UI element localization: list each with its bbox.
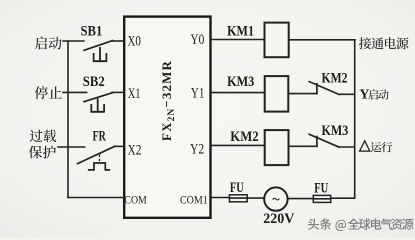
wire FU2 to bus xyxy=(331,197,355,199)
svg-text:X1: X1 xyxy=(128,86,141,102)
coil KM2 xyxy=(265,130,289,165)
svg-text:FU: FU xyxy=(314,181,328,197)
svg-text:Y0: Y0 xyxy=(190,32,204,48)
svg-text:COM: COM xyxy=(124,193,147,207)
watermark @全球电气资源 xyxy=(335,218,413,231)
pushbutton SB1 blade xyxy=(84,41,113,51)
svg-text:SB2: SB2 xyxy=(83,74,105,90)
fuse FU2 xyxy=(313,195,330,202)
wire source to FU2 xyxy=(288,198,314,200)
AC source circle xyxy=(264,187,287,210)
right bus wire xyxy=(354,40,356,198)
wire FR to X2 xyxy=(115,145,124,147)
FR contact blade xyxy=(78,146,115,163)
wire start row xyxy=(63,40,84,42)
wire KM3 coil to KM2 contact xyxy=(288,93,317,95)
label Y启动 chars xyxy=(368,89,388,100)
svg-text:KM1: KM1 xyxy=(227,23,254,39)
svg-text:Y: Y xyxy=(359,88,369,103)
wire Y1 to KM3 coil xyxy=(211,92,265,94)
svg-text:KM2: KM2 xyxy=(230,129,258,145)
label 接通电源 (power on) xyxy=(359,37,408,49)
svg-text:KM2: KM2 xyxy=(322,71,348,87)
fuse FU1 xyxy=(229,195,247,202)
svg-text:FX2N−32MR: FX2N−32MR xyxy=(159,60,177,141)
label 启动 (start) xyxy=(35,37,62,50)
pushbutton SB1 actuator cap xyxy=(93,47,107,61)
coil KM3 xyxy=(265,76,289,112)
wire Y0 to KM1 xyxy=(211,39,265,41)
watermark 头条 xyxy=(308,218,331,229)
AC tilde xyxy=(273,198,280,200)
svg-text:FU: FU xyxy=(230,180,244,196)
svg-text:KM3: KM3 xyxy=(322,123,349,139)
wire KM2 contact to bus xyxy=(339,93,355,95)
wire stop row xyxy=(63,91,87,93)
svg-text:FR: FR xyxy=(93,129,107,145)
pushbutton SB2 blade xyxy=(84,93,113,102)
KM3 NC contact blade xyxy=(309,134,339,147)
pushbutton SB2 actuator cap xyxy=(91,99,105,112)
PLC box FX2N-32MR xyxy=(124,17,210,218)
wire through FU1 xyxy=(229,197,247,199)
label 保护 (protect) xyxy=(29,146,56,159)
left bus wire xyxy=(67,41,69,198)
wire COM bottom-left xyxy=(68,197,124,199)
label 停止 (stop) xyxy=(35,86,62,99)
label 过载 (overload) xyxy=(30,130,56,142)
svg-text:Y1: Y1 xyxy=(191,85,205,101)
wire COM1 to FU1 xyxy=(211,197,230,199)
wire KM2 coil to KM3 contact xyxy=(289,145,318,147)
label 运行 triangle xyxy=(360,141,370,151)
svg-text:X2: X2 xyxy=(128,143,142,159)
svg-text:Y2: Y2 xyxy=(190,142,204,158)
wire Y2 to KM2 coil xyxy=(211,144,265,146)
wire SB2 to X1 xyxy=(112,91,124,93)
svg-text:X0: X0 xyxy=(128,33,141,49)
svg-text:SB1: SB1 xyxy=(81,23,103,39)
wire SB1 to X0 xyxy=(112,40,124,42)
wire KM1 to bus xyxy=(289,39,355,41)
label 运行 (run) xyxy=(371,142,393,152)
FR thermal element xyxy=(88,163,110,170)
coil KM1 xyxy=(265,23,289,58)
svg-text:COM1: COM1 xyxy=(180,193,208,207)
KM3 NC contact seat xyxy=(316,137,318,147)
wire overload row xyxy=(58,146,85,148)
svg-text:220V: 220V xyxy=(263,211,294,227)
wire KM3 contact to bus xyxy=(339,146,355,148)
KM2 NC contact blade xyxy=(309,82,339,95)
KM2 NC contact seat xyxy=(316,84,318,94)
FR actuator link (dashed) xyxy=(99,155,101,163)
wire through FU2 xyxy=(313,198,330,200)
svg-text:KM3: KM3 xyxy=(227,74,254,90)
wire FU1 to source xyxy=(247,197,264,199)
